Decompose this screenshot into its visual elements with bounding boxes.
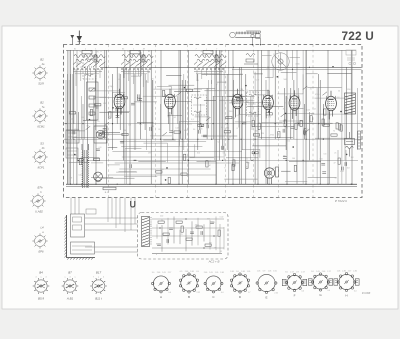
wire — [85, 217, 138, 219]
wire — [81, 157, 99, 159]
svg-text:2.46: 2.46 — [353, 271, 357, 273]
fuse 2 — [73, 225, 82, 230]
capacitor C18 — [169, 131, 173, 133]
wire — [281, 72, 297, 74]
svg-text:4700: 4700 — [346, 89, 350, 91]
capacitor C19 — [138, 99, 142, 101]
junction — [89, 119, 91, 121]
svg-text:1: 1 — [85, 49, 86, 51]
svg-text:EP6: EP6 — [38, 250, 44, 254]
svg-text:C12: C12 — [312, 109, 315, 111]
wire — [235, 121, 251, 123]
tube socket B — [179, 273, 198, 293]
wire — [314, 97, 351, 99]
wire — [187, 50, 189, 184]
wire — [67, 154, 77, 156]
svg-text:0,5: 0,5 — [213, 222, 216, 224]
wire — [182, 144, 195, 157]
svg-text:0,02: 0,02 — [78, 174, 82, 176]
svg-text:0,5: 0,5 — [100, 131, 103, 133]
svg-text:1.05: 1.05 — [273, 271, 277, 273]
capacitor — [283, 129, 285, 133]
svg-text:15: 15 — [220, 251, 222, 253]
wire — [229, 94, 240, 103]
wire — [253, 126, 290, 128]
svg-text:R 9.698: R 9.698 — [362, 292, 371, 295]
junction — [106, 67, 107, 68]
wire — [144, 143, 168, 162]
wire — [111, 198, 113, 219]
bandswitch coil assembly S3 — [194, 51, 226, 85]
svg-text:0,1: 0,1 — [288, 141, 291, 143]
wire — [161, 225, 163, 252]
capacitor C38 — [345, 162, 347, 166]
wire — [257, 96, 259, 130]
tuning capacitor / dial drive — [272, 53, 289, 70]
svg-text:0,5: 0,5 — [223, 153, 226, 155]
capacitor C6 — [96, 105, 98, 109]
mains dropper group — [345, 132, 355, 157]
svg-text:500: 500 — [284, 79, 287, 81]
wire — [250, 96, 252, 160]
wire — [72, 245, 92, 247]
svg-text:B7: B7 — [68, 271, 72, 275]
wire — [284, 88, 286, 124]
junction — [252, 44, 253, 45]
svg-text:25: 25 — [310, 88, 312, 90]
wire — [214, 67, 216, 160]
resistor R22 — [163, 90, 165, 96]
wire — [119, 171, 137, 173]
capacitor C43 — [157, 244, 161, 246]
wire — [134, 101, 157, 103]
wire — [133, 74, 135, 150]
mains switch box — [71, 242, 95, 254]
junction — [216, 67, 217, 68]
wire — [215, 50, 217, 184]
resistor R10 — [278, 132, 280, 138]
junction — [241, 139, 242, 140]
svg-text:0,02: 0,02 — [172, 117, 176, 119]
svg-text:1.05: 1.05 — [162, 272, 166, 274]
screen box with resistor chain — [87, 82, 99, 120]
wire — [245, 103, 270, 113]
capacitor C21 — [102, 131, 104, 135]
svg-text:0,02: 0,02 — [184, 130, 188, 132]
svg-text:P 7222 b: P 7222 b — [335, 199, 348, 203]
tube socket H — [334, 273, 359, 292]
wafer glyph coil L4 — [32, 233, 47, 248]
heater dropper winding columns — [82, 144, 89, 188]
wire — [126, 67, 128, 184]
resistor R35 — [205, 244, 211, 246]
wire — [112, 92, 124, 110]
resistor R17 — [206, 161, 208, 167]
output transformer T2 — [345, 93, 356, 114]
svg-text:1.05: 1.05 — [337, 271, 341, 273]
junction — [81, 184, 82, 185]
svg-text:7: 7 — [195, 49, 196, 51]
wafer ring B4 — [33, 278, 50, 294]
mains filter group — [346, 50, 356, 65]
wire — [172, 96, 174, 139]
svg-text:25: 25 — [149, 225, 151, 227]
resistor R1 — [266, 113, 272, 115]
junction — [166, 167, 168, 169]
svg-text:2M: 2M — [148, 153, 151, 155]
svg-text:70: 70 — [200, 129, 202, 131]
wire — [286, 50, 288, 184]
wire — [143, 50, 145, 124]
capacitor C16 — [322, 172, 326, 174]
resistor R12 — [237, 99, 243, 101]
junction — [160, 184, 161, 185]
junction — [255, 139, 256, 140]
wafer glyph coil B2-7a — [32, 108, 47, 123]
junction — [309, 67, 310, 68]
IF transformer L9/L10 — [192, 95, 207, 115]
junction — [292, 146, 294, 148]
wire — [185, 229, 187, 251]
wire — [82, 104, 84, 184]
svg-text:0.4: 0.4 — [354, 291, 357, 293]
wire — [150, 50, 152, 184]
wire — [350, 50, 352, 139]
wire — [107, 164, 120, 166]
wire — [298, 122, 332, 124]
svg-text:R8: R8 — [148, 72, 150, 74]
svg-text:7: 7 — [93, 276, 94, 278]
junction — [182, 139, 183, 140]
svg-text:500: 500 — [77, 63, 80, 65]
main chassis dashed border — [64, 45, 363, 198]
wire — [289, 160, 321, 162]
svg-text:4: 4 — [70, 276, 71, 278]
tube V4 — [263, 90, 274, 119]
junction — [346, 154, 348, 156]
wire — [267, 50, 269, 78]
capacitor C42 — [210, 222, 214, 224]
svg-text:0.4: 0.4 — [301, 291, 304, 293]
HT bus lower — [232, 68, 362, 70]
junction — [117, 184, 118, 185]
capacitor C17 — [297, 122, 299, 126]
svg-text:3.0: 3.0 — [236, 271, 239, 273]
wire — [242, 149, 260, 158]
svg-text:8: 8 — [156, 244, 157, 246]
capacitor C45 — [201, 231, 203, 235]
wire — [293, 80, 295, 139]
resistor R25 — [109, 112, 111, 118]
svg-text:8: 8 — [156, 254, 157, 256]
junction — [275, 123, 276, 124]
wire — [78, 198, 80, 215]
junction — [203, 247, 204, 248]
junction — [78, 160, 79, 161]
svg-text:3.0: 3.0 — [311, 271, 314, 273]
wafer glyph coil B2-4a — [32, 65, 47, 80]
svg-text:100: 100 — [228, 136, 231, 138]
wire — [81, 96, 83, 139]
wire — [209, 220, 211, 250]
svg-text:6,8: 6,8 — [347, 168, 350, 170]
wire — [85, 229, 138, 231]
svg-text:500: 500 — [239, 74, 242, 76]
svg-text:0,02: 0,02 — [220, 217, 224, 219]
wire — [101, 133, 124, 135]
wire — [150, 135, 172, 137]
wire — [305, 50, 307, 184]
svg-text:4: 4 — [201, 51, 202, 53]
wire — [200, 104, 202, 130]
tube socket D — [230, 273, 249, 293]
tube socket C — [204, 276, 223, 293]
wire — [73, 137, 107, 139]
svg-text:70: 70 — [215, 84, 217, 86]
wire — [260, 50, 262, 139]
AVC bus — [64, 123, 362, 125]
capacitor C2 — [116, 116, 120, 118]
wire — [262, 55, 272, 57]
wire — [251, 96, 253, 130]
wire — [124, 175, 157, 177]
wire — [315, 137, 352, 139]
coil winding in can — [85, 58, 94, 76]
junction — [286, 160, 287, 161]
svg-text:0.4: 0.4 — [221, 292, 224, 294]
electrolytic capacitor can — [94, 126, 107, 143]
wire — [157, 87, 172, 97]
svg-text:3n: 3n — [146, 81, 148, 83]
wire — [232, 50, 234, 184]
svg-text:25: 25 — [97, 121, 99, 123]
junction — [197, 139, 198, 140]
junction — [227, 123, 228, 124]
junction — [323, 139, 324, 140]
switch lever — [303, 86, 308, 90]
capacitor C41 — [190, 232, 194, 234]
svg-text:S2/9: S2/9 — [38, 82, 44, 86]
wire — [72, 249, 92, 251]
svg-text:6,8: 6,8 — [99, 147, 102, 149]
wire — [242, 104, 244, 150]
switch lever — [281, 113, 286, 117]
svg-text:30: 30 — [233, 118, 235, 120]
svg-text:9: 9 — [138, 51, 139, 53]
junction — [185, 218, 186, 219]
junction — [254, 152, 256, 154]
wire — [65, 80, 67, 150]
wire — [213, 96, 245, 98]
wire — [197, 74, 199, 150]
capacitor C7 — [137, 97, 139, 101]
svg-text:4700: 4700 — [195, 225, 199, 227]
wire — [70, 50, 72, 184]
wire — [177, 96, 179, 124]
wire — [68, 140, 77, 142]
wire — [180, 121, 200, 146]
svg-text:1M: 1M — [351, 157, 354, 159]
chassis bus 2 — [66, 185, 357, 187]
wire — [119, 198, 121, 225]
wire — [198, 112, 200, 130]
resistor R9 — [79, 159, 81, 165]
wire — [115, 162, 239, 164]
svg-text:220: 220 — [266, 67, 269, 69]
wire — [239, 67, 241, 184]
svg-text:F: F — [294, 294, 296, 298]
wire — [215, 50, 217, 184]
wire — [217, 81, 226, 83]
resistor R24 — [232, 164, 234, 170]
svg-text:0,5: 0,5 — [226, 127, 229, 129]
wire — [204, 99, 216, 101]
svg-text:2.46: 2.46 — [342, 271, 346, 273]
svg-text:25: 25 — [334, 152, 336, 154]
svg-text:220: 220 — [160, 215, 163, 217]
shield partition — [312, 45, 314, 198]
wire — [173, 217, 175, 244]
pilot lamp — [94, 172, 103, 182]
wire — [84, 74, 86, 139]
wire — [104, 50, 106, 139]
wire — [135, 67, 137, 150]
svg-text:1.05: 1.05 — [257, 271, 261, 273]
svg-text:1M: 1M — [208, 165, 211, 167]
wafer glyph coil B7h — [30, 193, 45, 208]
wire — [105, 50, 107, 184]
svg-text:30: 30 — [283, 109, 285, 111]
capacitor C23 — [137, 94, 139, 98]
resistor R27 — [186, 89, 192, 91]
wire — [108, 174, 216, 176]
wire — [143, 95, 177, 97]
svg-text:L4: L4 — [40, 226, 44, 230]
svg-text:220: 220 — [86, 169, 89, 171]
resistor — [300, 120, 302, 126]
junction — [251, 160, 252, 161]
wire — [226, 74, 228, 150]
svg-text:B: B — [188, 295, 190, 299]
wire — [345, 150, 347, 184]
svg-text:E: E — [265, 296, 267, 300]
junction — [351, 184, 352, 185]
resistor chain right edge — [358, 131, 361, 149]
svg-text:B2: B2 — [40, 101, 44, 105]
capacitor C24 — [268, 104, 272, 106]
wire — [119, 74, 121, 130]
svg-text:B4: B4 — [39, 271, 43, 275]
svg-text:1.05: 1.05 — [268, 271, 272, 273]
tube socket A — [152, 276, 171, 293]
wire — [197, 218, 199, 246]
wire — [249, 91, 270, 103]
wire — [95, 76, 119, 91]
wire — [138, 161, 166, 163]
resistor R36 — [218, 230, 220, 236]
svg-text:70: 70 — [246, 167, 248, 169]
wire — [306, 73, 318, 75]
wire — [224, 178, 257, 180]
wire — [77, 112, 79, 130]
switch lever — [268, 95, 273, 99]
wire — [265, 65, 273, 78]
wire — [163, 139, 175, 141]
svg-text:3.0: 3.0 — [152, 272, 155, 274]
wire — [215, 217, 217, 251]
wire — [73, 67, 75, 124]
wire — [201, 74, 243, 76]
svg-text:6CM1: 6CM1 — [37, 125, 45, 129]
junction — [306, 139, 307, 140]
svg-text:2M: 2M — [207, 219, 210, 221]
wire — [76, 112, 78, 184]
svg-text:0,1: 0,1 — [191, 119, 194, 121]
wire — [308, 112, 310, 160]
switch lever — [90, 88, 95, 92]
wire — [95, 50, 97, 184]
svg-text:AC2 + B: AC2 + B — [208, 260, 220, 264]
svg-text:500: 500 — [320, 158, 323, 160]
svg-text:B11 t: B11 t — [95, 297, 102, 301]
svg-text:U.AB2: U.AB2 — [35, 210, 43, 214]
wire — [351, 50, 353, 184]
svg-text:0,5: 0,5 — [236, 115, 239, 117]
switch lever — [206, 117, 211, 121]
wire — [74, 198, 76, 215]
wire — [129, 50, 131, 184]
wire — [290, 57, 301, 59]
svg-text:A: A — [160, 295, 162, 299]
wire — [226, 157, 259, 159]
wire — [153, 88, 191, 90]
svg-text:50: 50 — [255, 131, 257, 133]
svg-text:0,5: 0,5 — [286, 98, 289, 100]
svg-text:R8: R8 — [209, 242, 211, 244]
junction — [159, 227, 160, 228]
wire — [239, 114, 262, 127]
wire — [195, 116, 210, 118]
junction — [82, 123, 83, 124]
resistor — [122, 133, 128, 135]
svg-text:2.46: 2.46 — [157, 272, 161, 274]
wire — [262, 122, 283, 124]
wire — [296, 50, 298, 184]
svg-text:2.52: 2.52 — [274, 293, 278, 295]
svg-text:25: 25 — [152, 79, 154, 81]
capacitor — [304, 130, 306, 134]
svg-text:2.46: 2.46 — [220, 272, 224, 274]
wire — [277, 74, 303, 94]
wire — [67, 50, 69, 184]
svg-text:500: 500 — [229, 111, 232, 113]
svg-text:0.9: 0.9 — [196, 271, 199, 273]
wire — [245, 74, 247, 184]
svg-text:220: 220 — [189, 123, 192, 125]
wire — [68, 80, 70, 184]
resistor R28 — [338, 158, 340, 164]
wire — [182, 88, 203, 90]
junction — [327, 184, 328, 185]
junction — [135, 160, 136, 161]
wire — [112, 151, 242, 153]
wire — [174, 91, 200, 93]
svg-text:a: a — [75, 276, 76, 278]
svg-text:6,8: 6,8 — [337, 97, 340, 99]
svg-text:220: 220 — [268, 117, 271, 119]
resistor R18 — [198, 124, 204, 126]
wire — [327, 73, 351, 75]
